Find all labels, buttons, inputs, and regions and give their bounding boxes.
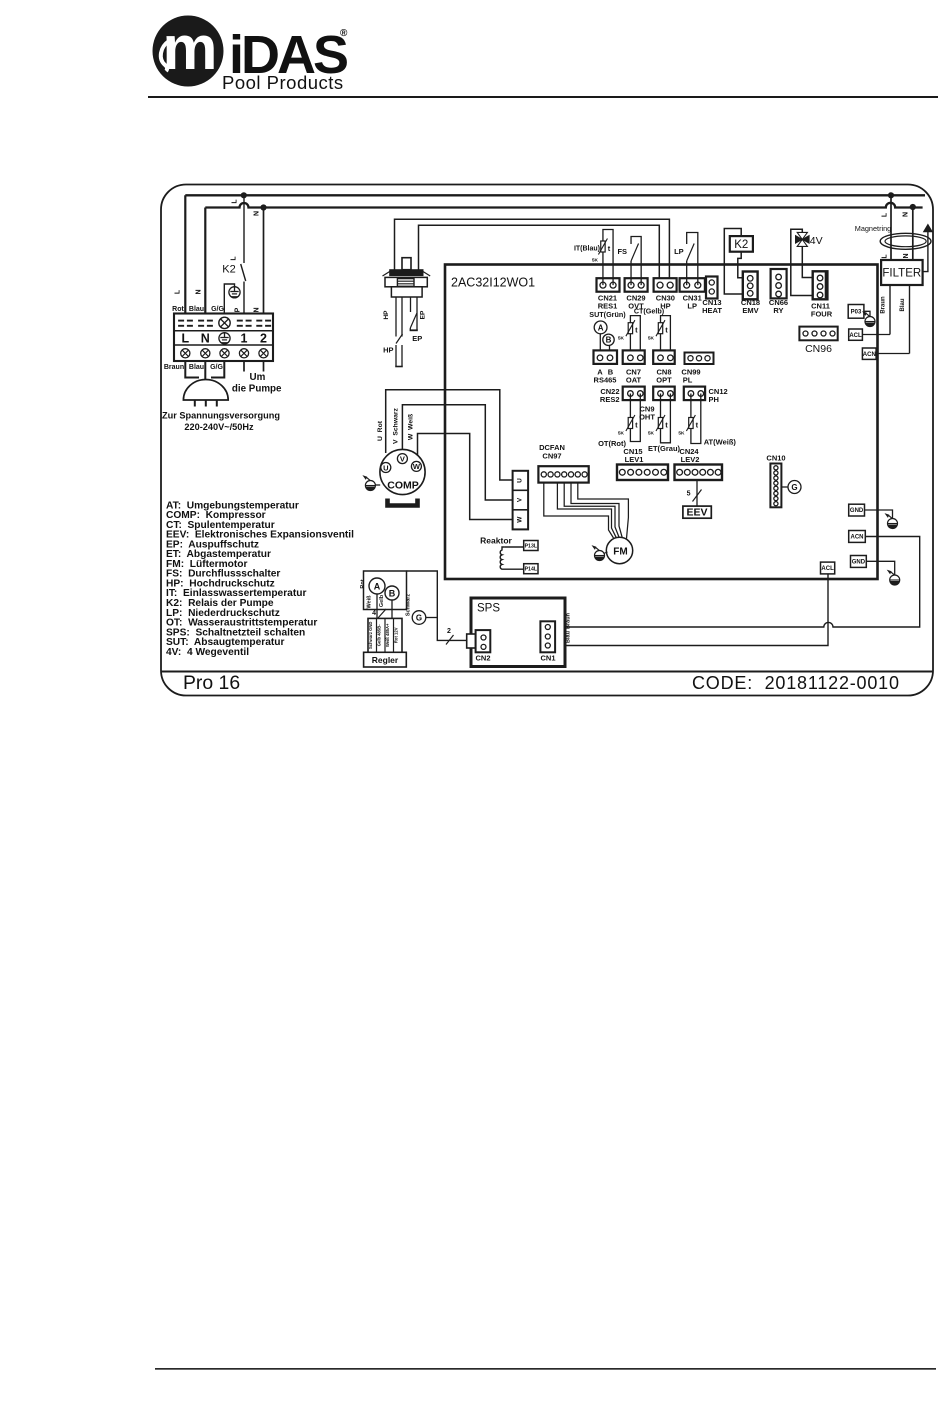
connector CN30 HP	[654, 278, 677, 292]
svg-text:GND: GND	[850, 508, 864, 514]
wire L mains top	[185, 194, 925, 196]
svg-text:N: N	[903, 253, 910, 258]
svg-text:V: V	[400, 454, 405, 463]
svg-text:Um: Um	[250, 372, 266, 383]
svg-text:4V: 4V	[810, 235, 823, 247]
svg-text:HP: HP	[383, 346, 393, 355]
svg-text:SPS: SPS	[477, 603, 500, 615]
node A	[594, 321, 607, 334]
svg-text:Pool Products: Pool Products	[222, 72, 344, 93]
svg-text:HP: HP	[383, 310, 390, 320]
svg-text:t: t	[665, 421, 668, 430]
svg-text:B: B	[389, 589, 396, 599]
connector P14L	[524, 564, 538, 574]
svg-text:ACL: ACL	[849, 333, 862, 339]
svg-text:Pro 16: Pro 16	[183, 672, 240, 694]
connector CN8 OPT with thermistor loop	[661, 316, 671, 358]
svg-text:m: m	[162, 14, 217, 83]
svg-text:Blau: Blau	[189, 306, 204, 313]
svg-text:Schwarz: Schwarz	[406, 594, 412, 617]
svg-text:2: 2	[447, 628, 451, 635]
svg-text:K2: K2	[734, 239, 748, 251]
svg-text:2AC32I12WO1: 2AC32I12WO1	[451, 276, 535, 290]
svg-text:B: B	[606, 336, 612, 345]
wire V Schwarz	[402, 405, 512, 500]
wire N drop to filter	[912, 207, 914, 260]
svg-text:1: 1	[241, 332, 248, 346]
svg-text:EP: EP	[420, 310, 427, 319]
svg-text:P13L: P13L	[525, 544, 538, 550]
pressure switch body	[402, 258, 411, 270]
filter chassis arrow	[923, 232, 928, 272]
svg-text:5: 5	[687, 491, 691, 498]
svg-text:ACL: ACL	[821, 566, 834, 572]
bottom page line	[155, 1368, 936, 1370]
wire stub terminal 1	[243, 361, 245, 372]
wire ACL to SPS CN1	[551, 574, 829, 646]
wire to plug blau	[204, 361, 206, 381]
terminal ACL top	[849, 329, 863, 340]
svg-text:PL: PL	[683, 376, 693, 385]
svg-text:Braun: Braun	[881, 296, 887, 314]
svg-text:RS465: RS465	[594, 376, 617, 385]
wire Rot column	[184, 195, 186, 313]
svg-text:W: W	[413, 462, 421, 471]
svg-text:G: G	[791, 483, 797, 492]
UVW terminal strip	[513, 471, 529, 530]
connector CN66 RY	[771, 269, 787, 298]
svg-text:A: A	[374, 582, 381, 592]
svg-text:LEV2: LEV2	[681, 455, 700, 464]
wire EP feed	[419, 225, 660, 281]
svg-text:Blau: Blau	[189, 364, 204, 371]
svg-text:5K: 5K	[618, 336, 625, 342]
svg-text:2: 2	[260, 332, 267, 346]
svg-text:W: W	[517, 516, 524, 523]
terminal ACL bottom	[821, 562, 835, 574]
svg-text:®: ®	[340, 28, 348, 39]
PCB board 2AC32I12WO1	[445, 265, 878, 580]
svg-text:FOUR: FOUR	[811, 310, 833, 319]
svg-text:5K: 5K	[618, 431, 625, 437]
svg-text:5K: 5K	[592, 258, 599, 264]
svg-text:V Schwarz: V Schwarz	[393, 407, 400, 443]
svg-text:EEV: EEV	[686, 507, 707, 519]
connector CN12 PH with AT thermistor loop	[684, 387, 705, 401]
connector CN18 EMV	[743, 272, 758, 300]
earth GND2	[887, 570, 900, 585]
wire Blau column	[204, 208, 206, 314]
svg-text:AT(Weiß): AT(Weiß)	[704, 438, 737, 447]
svg-text:t: t	[696, 421, 699, 430]
svg-text:ACN: ACN	[863, 352, 876, 358]
clamp earth circle	[219, 317, 230, 328]
earth P03	[862, 311, 875, 326]
svg-text:5K: 5K	[648, 336, 655, 342]
earth hook G/G column	[224, 284, 234, 314]
connector CN29 OVT	[625, 278, 648, 292]
svg-text:CN10: CN10	[766, 454, 785, 463]
svg-text:t: t	[635, 421, 638, 430]
wire to plug braun	[185, 361, 199, 378]
EEV wire bundle	[696, 480, 698, 506]
mains plug dome	[183, 380, 228, 401]
svg-text:K2: K2	[222, 264, 235, 276]
wire blau from filter	[909, 285, 911, 354]
sensor loop IT with thermistor	[603, 230, 613, 286]
svg-text:P14L: P14L	[525, 567, 538, 573]
svg-text:RES2: RES2	[600, 395, 620, 404]
FILTER box	[881, 260, 923, 285]
svg-text:G: G	[416, 614, 422, 623]
diagram frame	[161, 185, 933, 696]
wire schwarz to SPS	[407, 571, 467, 640]
svg-text:L: L	[232, 199, 239, 204]
terminal screws	[181, 349, 190, 358]
svg-text:Rot 12V: Rot 12V	[394, 627, 399, 643]
svg-text:L: L	[882, 212, 889, 217]
svg-text:PH: PH	[709, 395, 719, 404]
svg-text:ACN: ACN	[851, 535, 864, 541]
connector CN13 HEAT	[706, 277, 718, 299]
svg-text:OPT: OPT	[656, 376, 672, 385]
Regler box	[364, 652, 407, 667]
svg-text:LP: LP	[674, 247, 684, 256]
connector CN21 RES1	[597, 278, 620, 292]
flow switch FS	[630, 261, 632, 285]
clamp symbol col 263.5	[256, 320, 262, 322]
junction node N right	[910, 204, 916, 210]
relay K2 coil wiring	[724, 229, 747, 295]
svg-text:Blau: Blau	[900, 298, 906, 311]
svg-text:Weiß: Weiß	[367, 595, 373, 609]
compressor COMP	[380, 449, 425, 494]
4-way valve 4V wiring	[791, 229, 820, 295]
EP capillary and switch	[410, 297, 412, 312]
svg-text:4V: 4 Wegeventil: 4V: 4 Wegeventil	[166, 647, 249, 658]
node G pcb	[781, 486, 788, 488]
svg-text:Braun: Braun	[565, 612, 571, 629]
connector CN11 FOUR	[813, 271, 828, 299]
svg-text:A: A	[598, 323, 604, 332]
junction node L right	[888, 192, 894, 198]
svg-text:P: P	[235, 307, 242, 312]
svg-text:N: N	[903, 212, 910, 217]
svg-text:W Weiß: W Weiß	[408, 414, 415, 440]
svg-text:t: t	[635, 326, 638, 335]
svg-text:N: N	[254, 211, 261, 216]
SPS box	[471, 598, 565, 667]
svg-text:Rot: Rot	[360, 579, 366, 588]
wire ACL to braun	[862, 334, 890, 336]
wire U Rot	[386, 390, 513, 480]
terminal GND 2	[851, 556, 867, 568]
connector CN31 LP	[680, 278, 705, 292]
svg-text:L: L	[882, 254, 889, 259]
terminal GND 1	[849, 504, 865, 516]
svg-text:V: V	[517, 497, 524, 502]
regler terminal strip	[368, 618, 402, 652]
plug prongs	[194, 400, 196, 407]
svg-text:U: U	[517, 478, 524, 483]
valve EEV	[683, 506, 711, 518]
clamp symbol col 185.3	[178, 320, 184, 322]
wire braun from filter	[889, 285, 891, 335]
svg-text:t: t	[665, 326, 668, 335]
footer separator line	[161, 671, 933, 673]
svg-text:U Rot: U Rot	[377, 420, 384, 441]
svg-text:t: t	[608, 244, 611, 253]
HP capillary and switch	[395, 297, 397, 337]
svg-text:OT(Rot): OT(Rot)	[598, 439, 626, 448]
svg-text:Regler: Regler	[372, 655, 399, 665]
svg-text:CN2: CN2	[475, 654, 490, 663]
relay K2 box	[730, 236, 753, 252]
wire L drop to filter	[890, 195, 892, 260]
connector CN1	[540, 621, 555, 652]
svg-text:G/G: G/G	[211, 306, 224, 313]
node B regler	[385, 586, 399, 600]
svg-text:OAT: OAT	[626, 376, 642, 385]
svg-text:CN96: CN96	[805, 343, 832, 355]
wire ACN to blau	[876, 353, 909, 355]
svg-text:OHT: OHT	[639, 413, 655, 422]
svg-text:Braun: Braun	[164, 364, 184, 371]
svg-text:RY: RY	[773, 306, 783, 315]
svg-text:IT(Blau): IT(Blau)	[574, 246, 600, 253]
svg-text:LEV1: LEV1	[625, 455, 644, 464]
connector RES2 with OT thermistor loop	[623, 387, 645, 401]
svg-text:FS: FS	[617, 247, 627, 256]
terminal ACN bottom	[849, 531, 866, 543]
svg-text:Magnetring: Magnetring	[855, 224, 892, 233]
svg-text:FM: FM	[613, 547, 627, 558]
compressor earth	[375, 484, 380, 486]
wire to plug g/g	[211, 361, 224, 378]
4-way valve symbol 4V	[796, 232, 810, 246]
svg-text:L: L	[175, 289, 182, 294]
svg-text:COMP: COMP	[387, 480, 419, 492]
svg-text:Schwarz GND: Schwarz GND	[368, 622, 373, 649]
terminal P03	[848, 305, 864, 319]
connector RS485	[594, 350, 618, 364]
compressor mounting bracket	[388, 499, 418, 506]
terminal ACN top	[862, 348, 876, 359]
magnet ring toroid	[880, 233, 931, 249]
svg-text:die Pumpe: die Pumpe	[232, 384, 282, 395]
relay K2 switch	[243, 195, 245, 263]
svg-text:4: 4	[372, 610, 376, 617]
svg-text:EMV: EMV	[742, 306, 758, 315]
earth GND1	[885, 513, 898, 528]
fan earth	[604, 552, 608, 554]
svg-text:CN1: CN1	[540, 654, 555, 663]
controller cable box	[364, 571, 407, 610]
svg-text:SUT(Grün): SUT(Grün)	[589, 310, 626, 319]
svg-text:CN97: CN97	[542, 452, 561, 461]
svg-text:N: N	[196, 289, 203, 294]
wire HP feed	[395, 219, 670, 281]
svg-text:5K: 5K	[678, 431, 685, 437]
svg-text:Gelb 485B-: Gelb 485B-	[377, 624, 382, 646]
wires A B to regler strip	[376, 594, 378, 618]
svg-text:U: U	[383, 463, 388, 472]
wire ACN to SPS CN1	[551, 537, 920, 628]
fan motor FM	[606, 537, 632, 563]
terminal block	[174, 314, 273, 362]
low pressure switch LP	[686, 261, 688, 285]
clamp symbol col 205.3	[198, 320, 204, 322]
wire W Weiss	[418, 434, 513, 520]
fan wires CN97 to FM	[544, 483, 614, 538]
svg-text:Blau: Blau	[565, 631, 571, 643]
svg-text:CT(Gelb): CT(Gelb)	[634, 307, 665, 316]
node A regler	[369, 578, 385, 594]
logo Midas disc	[153, 14, 224, 87]
svg-text:ET(Grau): ET(Grau)	[648, 444, 681, 453]
svg-text:N: N	[201, 332, 210, 346]
svg-text:HEAT: HEAT	[702, 306, 722, 315]
svg-text:N: N	[254, 307, 261, 312]
svg-text:FILTER: FILTER	[882, 268, 921, 280]
connector CN96	[799, 327, 837, 341]
svg-text:CODE: 20181122-0010: CODE: 20181122-0010	[692, 673, 900, 693]
svg-text:5K: 5K	[648, 431, 655, 437]
svg-text:Zur Spannungsversorgung: Zur Spannungsversorgung	[162, 411, 280, 421]
svg-text:Rot: Rot	[172, 306, 184, 313]
junction node L-K2	[241, 192, 247, 198]
connector P13L	[524, 541, 538, 551]
svg-text:220-240V~/50Hz: 220-240V~/50Hz	[184, 422, 254, 432]
svg-text:Weiß 485A+: Weiß 485A+	[385, 623, 390, 647]
svg-text:G/G: G/G	[210, 364, 223, 371]
connector CN99 PL	[685, 353, 714, 365]
connector CN2	[467, 634, 476, 648]
wires A B to RS485	[599, 334, 601, 352]
svg-text:Gelb: Gelb	[379, 594, 385, 607]
svg-text:P03: P03	[851, 310, 862, 316]
junction node N-pump	[260, 204, 266, 210]
svg-text:GND: GND	[852, 560, 866, 566]
svg-text:LP: LP	[687, 302, 697, 311]
svg-text:EP: EP	[412, 334, 422, 343]
header divider line	[148, 96, 938, 98]
wire N mains top with hops	[205, 203, 922, 208]
clamp symbol col 244	[237, 320, 243, 322]
svg-text:L: L	[181, 332, 189, 346]
node G regler	[412, 611, 426, 625]
svg-text:L: L	[231, 256, 238, 261]
node B	[603, 334, 614, 345]
wire stub terminal 2	[263, 361, 265, 372]
wire pump N column	[263, 208, 265, 314]
svg-text:Reaktor: Reaktor	[480, 536, 512, 546]
connector CN7 OAT with thermistor loop	[630, 316, 640, 358]
